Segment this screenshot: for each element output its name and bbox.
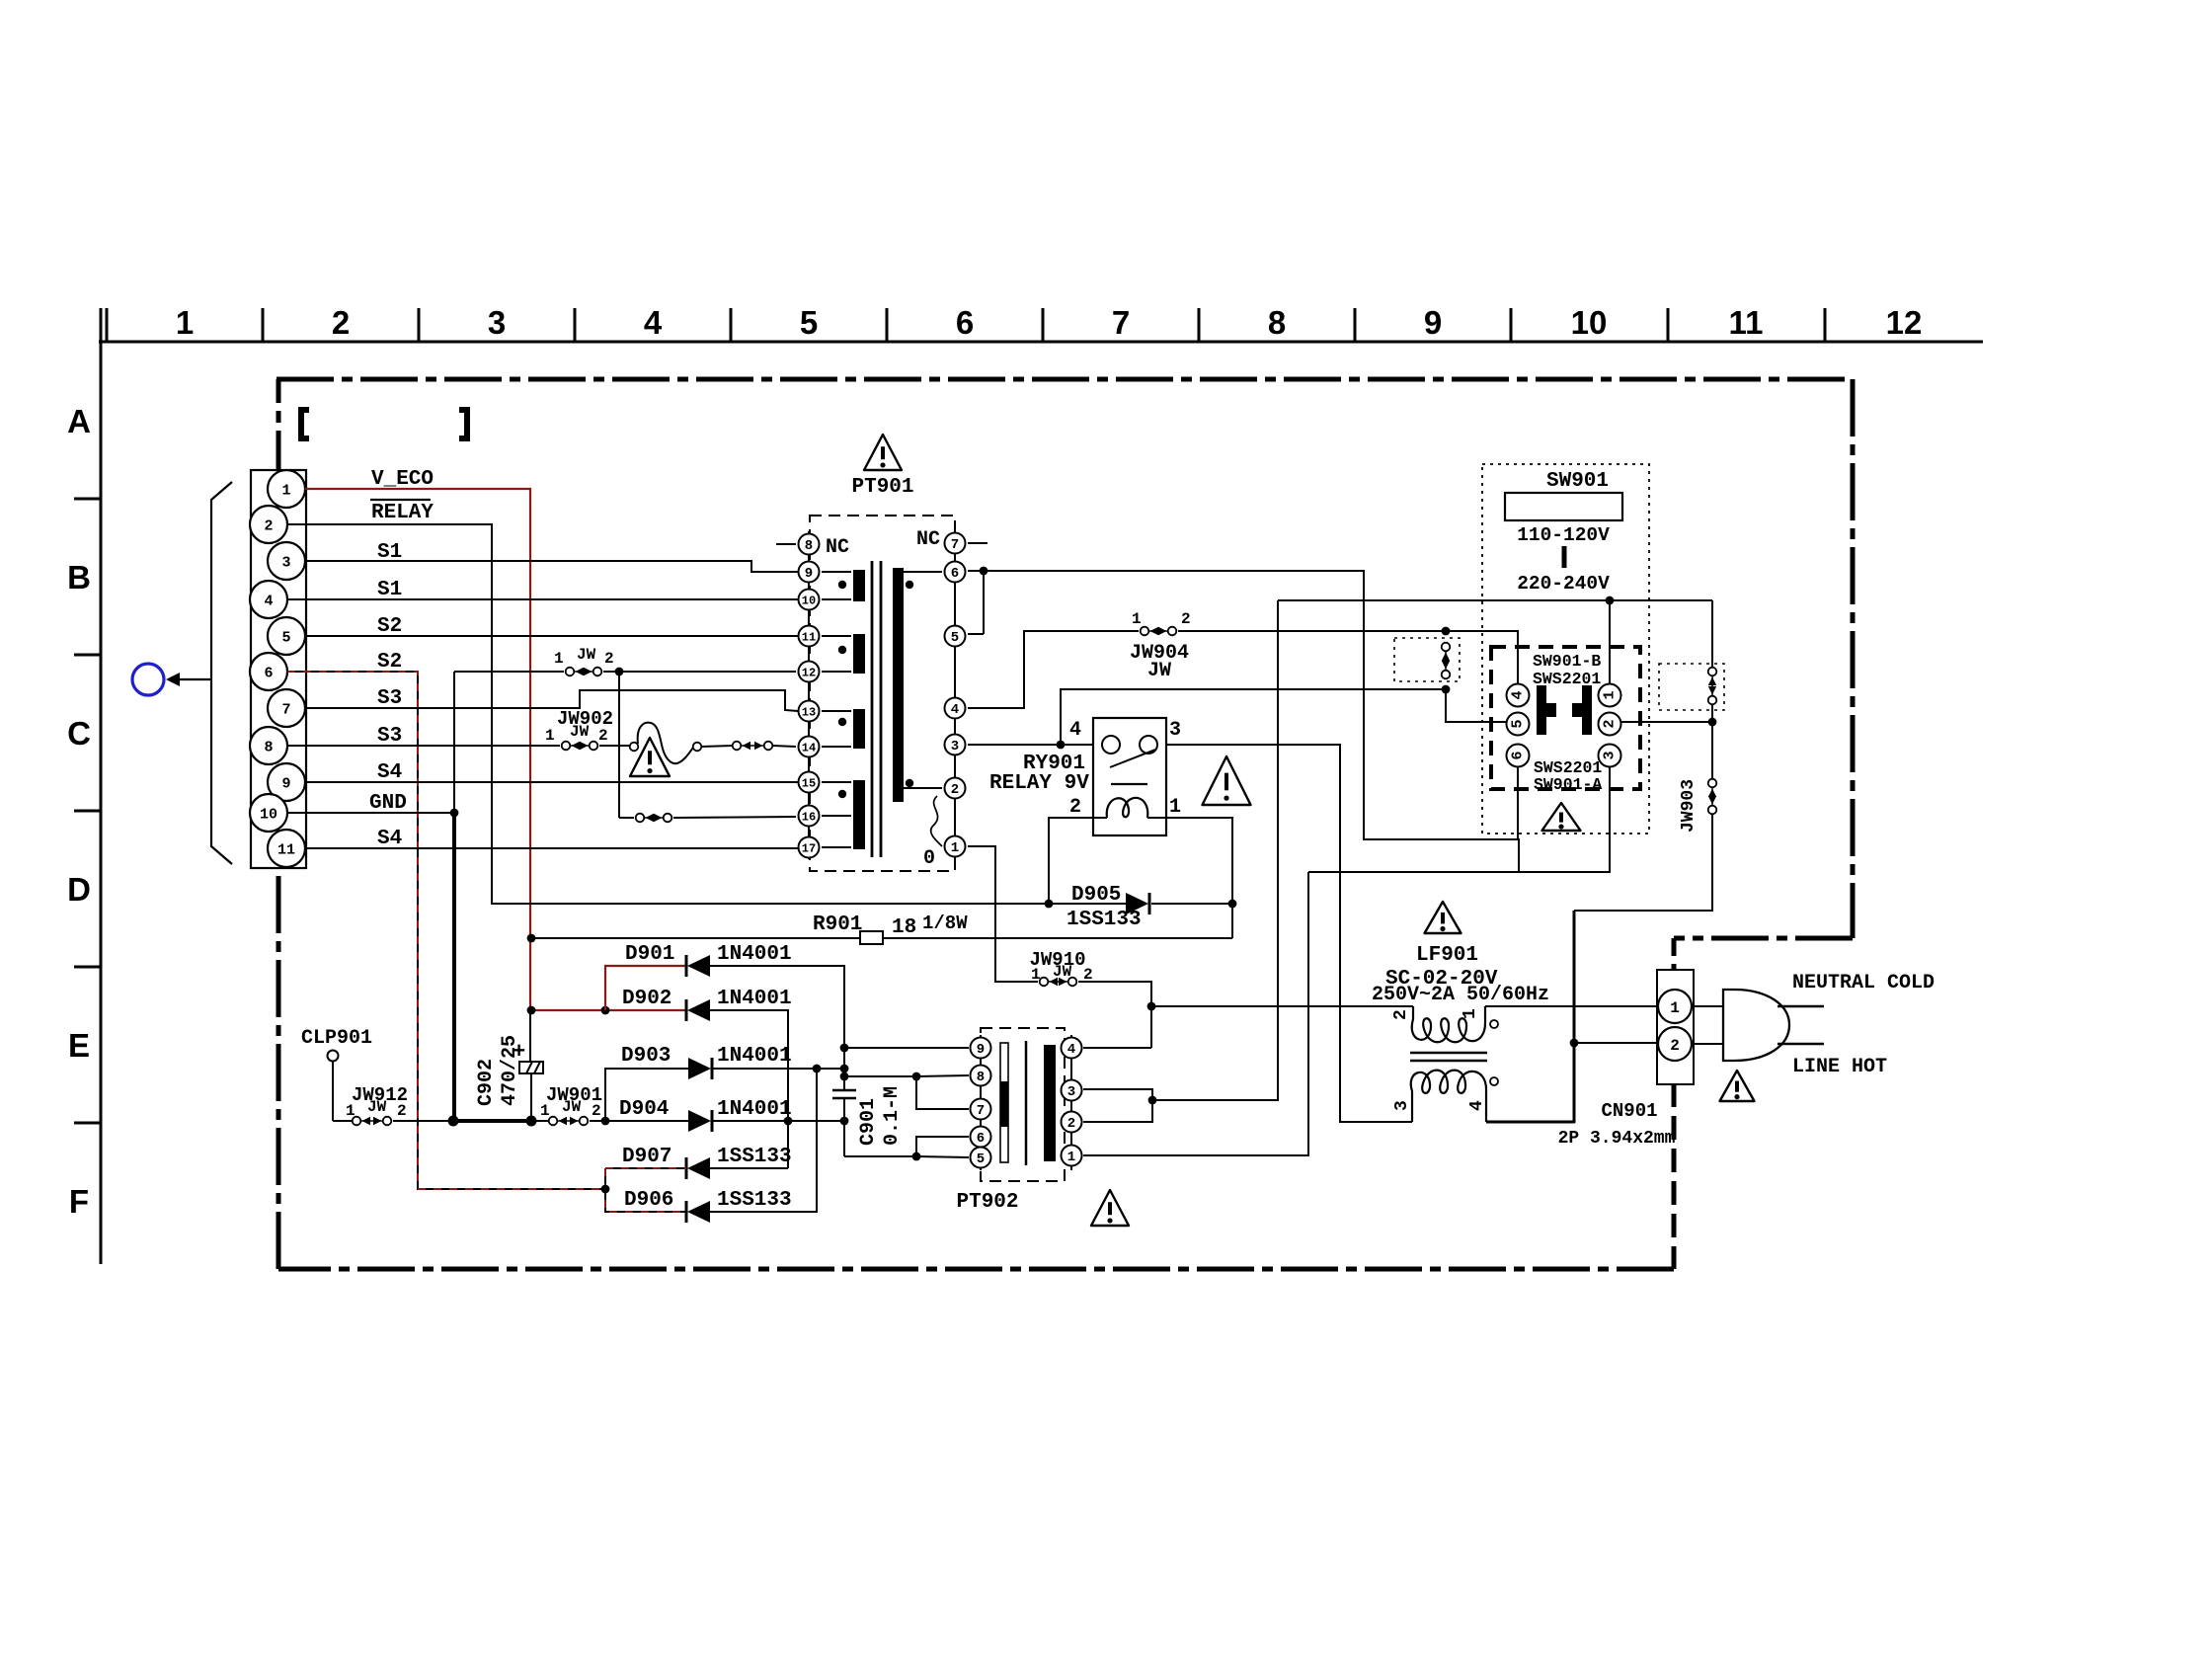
svg-text:D901: D901 [625,943,674,966]
svg-text:JW: JW [577,646,596,664]
arrow jumper (pin14) [741,745,764,747]
svg-text:1SS133: 1SS133 [717,1146,792,1168]
phase circle [1490,1020,1498,1028]
wire S2 pin5 to PT901 pin11 [305,635,798,637]
diode D901 [685,955,688,977]
svg-text:1: 1 [1461,1008,1480,1019]
wire LF901 pin4 [1486,1121,1575,1124]
svg-text:110-120V: 110-120V [1517,524,1610,546]
junction red dashed [601,1185,610,1194]
warning triangle plug [1720,1071,1755,1101]
svg-text:4: 4 [1069,719,1081,742]
svg-text:16: 16 [802,810,816,824]
relay lever [1110,750,1155,767]
SW901-B pin6 wire [1517,767,1519,839]
wire to PT901 pin16 [673,817,796,818]
svg-text:0: 0 [923,847,935,870]
svg-text:11: 11 [802,630,816,644]
PT901 pin 13 [799,701,820,722]
diode D906 [685,1201,688,1223]
svg-text:250V~2A 50/60Hz: 250V~2A 50/60Hz [1372,984,1549,1006]
PT902 primary bar (outline with solid center) [1000,1043,1008,1162]
svg-text:1N4001: 1N4001 [717,988,792,1010]
svg-text:9: 9 [977,1042,985,1058]
svg-text:NC: NC [826,536,849,559]
PT901 pin 1 [945,836,966,857]
svg-text:JW: JW [1147,660,1171,682]
connector pin 5 [268,617,305,655]
warning triangle PT901 [864,435,902,470]
junction GND thick [448,1116,459,1127]
svg-text:6: 6 [956,304,974,341]
plug leads [1692,1005,1723,1007]
svg-text:1: 1 [176,304,194,341]
winding stub [822,571,851,573]
svg-text:3: 3 [1067,1084,1075,1100]
svg-text:7: 7 [1112,304,1130,341]
PT902 pin 2 [1062,1112,1082,1133]
wire jumper to PT901 pin12 [603,671,796,673]
warning triangle PT902 [1091,1190,1129,1226]
switch contact glyphs [1537,685,1556,735]
svg-text:10: 10 [1571,304,1608,341]
arrow to circle [176,678,211,680]
svg-text:PT902: PT902 [956,1191,1018,1214]
selector bar [1562,546,1567,568]
winding stub [822,635,851,637]
wire down to pin16 jumper [618,672,620,818]
wire 220V net to LF901 pin2 [1151,1005,1413,1007]
svg-text:NC: NC [916,528,940,551]
connector pin 8 [250,727,287,764]
junction [840,1072,849,1081]
CN901 pin 2 [1658,1027,1692,1061]
wires PT902 pin3 pin2 [1083,1089,1152,1122]
svg-text:2: 2 [951,782,959,798]
hump wire over triangle [638,723,693,763]
wire pin5 join [983,571,985,634]
SW901 pin 3 [1599,745,1621,767]
svg-text:SW901-B: SW901-B [1533,652,1601,671]
svg-text:8: 8 [977,1070,985,1085]
relay coil pin1 wire [1147,818,1232,938]
svg-text:1: 1 [545,727,555,745]
wire JW904 to SW901-B pin4 [1178,631,1518,683]
svg-text:11: 11 [1729,304,1764,341]
svg-text:GND: GND [369,792,407,815]
PT902 left bus [980,1035,982,1170]
PT901 pin 16 [799,806,820,827]
wire D906 cathode [710,1069,817,1212]
svg-text:11: 11 [277,841,295,858]
diode D904 [711,1110,714,1132]
junction SW901 pin1 [1606,596,1615,605]
svg-text:CN901: CN901 [1601,1100,1657,1122]
LF901 bottom coil [1411,1071,1486,1122]
junction V_ECO to C902 [527,1006,536,1015]
svg-text:2: 2 [1069,796,1081,819]
wire to JW jumper (pin12) [454,671,564,673]
wire JW902 to hump [599,745,630,747]
svg-text:2: 2 [1067,1116,1075,1132]
svg-text:PT901: PT901 [851,476,913,499]
svg-text:D904: D904 [619,1098,669,1121]
PT901 pin 4 [945,698,966,719]
wire D903 cathode [712,1068,844,1070]
PT901 pin 6 [945,562,966,583]
winding stub [822,815,851,817]
svg-text:2: 2 [264,517,273,534]
wire JW903 down [1574,815,1712,911]
PT902 pin 7 [971,1099,991,1120]
wire jumper to GND [453,672,455,813]
svg-text:8: 8 [1268,304,1286,341]
junction [840,1065,849,1073]
svg-text:C902: C902 [475,1059,498,1106]
connector pin 7 [268,689,305,727]
secondary stubs [904,571,942,573]
SW901 slider rect [1505,493,1622,520]
off-board blue circle [132,664,164,695]
wire D907 cathode [710,1167,788,1169]
wire SW901 pin2 to JW903 [1621,721,1712,723]
svg-text:3: 3 [951,739,959,755]
wire R901 row [531,937,860,939]
PT902 pin 9 [971,1038,991,1059]
connector pin 2 [250,506,287,543]
svg-text:5: 5 [977,1152,985,1167]
wire S3 pin7 to PT901 pin13 [305,690,798,711]
junction CN901 pin2 [1570,1039,1579,1048]
svg-text:10: 10 [260,806,277,823]
svg-text:1: 1 [540,1102,550,1120]
junction [601,1006,610,1015]
wire S1 pin4 to PT901 pin10 [287,598,798,600]
junction [784,1117,793,1126]
svg-text:D903: D903 [621,1045,671,1068]
CN901 box [1657,970,1694,1084]
wire PT902 pin4 lead [1083,1047,1151,1049]
connector pin 10 [250,794,287,832]
CLP901 terminal [328,1051,339,1062]
junction [1057,741,1066,750]
PT902 pin 1 [1062,1146,1082,1166]
svg-text:JW903: JW903 [1679,779,1698,833]
PT901 pin 10 [799,590,820,610]
svg-text:4: 4 [1467,1100,1487,1111]
LF901 core [1410,1052,1487,1055]
PT902 pin 3 [1062,1080,1082,1101]
PT902 pin 4 [1062,1038,1082,1059]
wire PT901 pin1 to JW910 [968,846,1038,982]
svg-text:9: 9 [1424,304,1442,341]
D902 cathode wire down [710,1010,788,1168]
PT901 pin8 NC stub [776,543,796,545]
svg-text:5: 5 [800,304,818,341]
svg-text:LINE HOT: LINE HOT [1792,1056,1887,1078]
svg-text:1: 1 [1169,796,1181,819]
svg-text:14: 14 [802,741,816,755]
winding stub [822,710,851,712]
junction GND [450,809,459,818]
junction [1708,718,1717,727]
wire LF901 pin1 to CN901 pin1 [1485,1005,1657,1007]
junction PT902 pin9 [840,1044,849,1053]
wire 220-240V row [1278,599,1712,601]
svg-text:5: 5 [951,630,959,646]
jumper JW902 [570,745,590,747]
svg-text:10: 10 [802,594,816,607]
svg-text:2: 2 [332,304,350,341]
JW903 [1711,722,1713,778]
svg-text:7: 7 [281,701,290,718]
top ruler line [99,341,1983,344]
svg-text:E: E [68,1027,90,1064]
left ruler ticks [74,498,101,501]
svg-text:1: 1 [1067,1150,1075,1165]
PT901 pin 17 [799,837,820,858]
svg-text:2: 2 [604,650,614,668]
junction C902 [526,1116,537,1127]
PT902 dashed outline [981,1028,1065,1181]
svg-text:D: D [67,871,91,908]
junction C901 bottom [840,1117,849,1126]
phase dot [906,779,913,787]
wire pin4 to JW904 [968,631,1139,708]
svg-text:1SS133: 1SS133 [1066,909,1142,931]
svg-text:S3: S3 [377,687,402,710]
svg-text:12: 12 [1886,304,1923,341]
svg-text:3: 3 [1169,719,1181,742]
svg-text:1N4001: 1N4001 [717,943,792,966]
warning triangle LF901 [1425,902,1461,933]
PT902 core line [1025,1041,1028,1165]
svg-text:S3: S3 [377,725,402,748]
warning triangle relay [1203,756,1251,805]
winding stub [822,846,851,848]
svg-text:R901: R901 [813,913,862,936]
svg-text:S2: S2 [377,651,402,674]
jumper JW904 [1148,630,1168,632]
PT902 right bus [1070,1035,1072,1170]
svg-text:S1: S1 [377,579,402,601]
svg-text:D907: D907 [622,1146,671,1168]
winding phase dots [838,581,846,589]
svg-text:A: A [67,403,91,439]
top ruler ticks [106,308,109,342]
PT901 dashed outline [810,516,955,871]
svg-text:C901: C901 [857,1098,880,1146]
PT901 pin 9 [799,562,820,583]
connector pin 3 [268,542,305,580]
svg-text:4: 4 [951,702,959,718]
svg-text:9: 9 [805,566,813,582]
winding stub [822,598,851,600]
diode D902 [685,999,688,1021]
wire S4 pin9 to PT901 pin15 [305,781,798,783]
svg-text:2: 2 [1391,1009,1411,1020]
phase dot [906,581,913,589]
svg-text:1N4001: 1N4001 [717,1098,792,1121]
connector body box [251,470,306,868]
svg-text:SW901: SW901 [1546,470,1609,493]
svg-text:3: 3 [281,554,290,571]
connector pin 1 [268,470,305,508]
junction pin6/pin5 [980,567,988,576]
svg-text:8: 8 [805,538,813,554]
PT901 left pin bus [808,531,810,859]
junction [1442,627,1451,636]
wire S3 pin8 start [287,745,560,747]
warning triangle SW901 [1542,803,1581,831]
relay pin3 wire to LF901 pin3 [1166,745,1412,1122]
svg-text:6: 6 [1510,751,1527,759]
wire to CN901 pin2 [1574,1042,1657,1044]
PT901 pin 15 [799,772,820,793]
svg-text:4: 4 [1510,690,1527,699]
wire up to 110V select [1061,689,1446,745]
PT901 core lines [871,561,874,857]
svg-text:2: 2 [1670,1037,1680,1055]
red dashed anode links D907/D906 [605,1168,686,1212]
svg-text:2: 2 [1602,719,1619,728]
wire S2 pin6 red dashed [287,672,605,1189]
plug prongs [1777,1005,1824,1008]
wire to SW901 pin1 [1609,600,1611,683]
wire GND pin10 [287,812,454,814]
junction PT902 pin2/3 [1148,1096,1157,1105]
LF901 top coil [1412,1006,1485,1042]
svg-text:CLP901: CLP901 [301,1027,372,1050]
SW901 pin 6 [1507,745,1530,767]
svg-text:3: 3 [1602,751,1619,759]
svg-text:2P 3.94x2mm: 2P 3.94x2mm [1558,1129,1676,1149]
svg-text:5: 5 [281,629,290,646]
PT902 secondary bar [1044,1045,1056,1161]
PT901 pin 5 [945,626,966,647]
off-board bracket [211,482,232,864]
dotted box (jumper option) [1394,638,1460,681]
relay RY901 box [1093,718,1166,835]
svg-text:JW: JW [562,1098,582,1116]
svg-text:S4: S4 [377,828,402,850]
PT901 pin7 NC stub [968,542,987,544]
svg-text:S4: S4 [377,761,402,784]
svg-text:12: 12 [802,666,816,679]
jumper JW901 [557,1120,580,1122]
arrow jumper (pin16) [644,817,664,819]
right dotted box jumper [1659,664,1724,710]
CN901 pin 1 [1658,990,1692,1023]
wire RELAY pin2 [287,524,1049,904]
svg-text:220-240V: 220-240V [1517,573,1610,595]
PT901 right pin bus [954,531,956,859]
PT901 pin 2 [945,778,966,799]
svg-text:C: C [67,715,91,752]
svg-text:LF901: LF901 [1416,944,1478,967]
jumper (110V option) [1445,651,1447,671]
D901 cathode wire to PT902 pin9 [710,966,844,1090]
svg-text:D906: D906 [624,1189,673,1212]
PT901 pin 8 [799,534,820,555]
SW901 pin 1 [1599,684,1621,707]
AC plug symbol [1723,990,1789,1061]
diode D903 [711,1058,714,1079]
winding stub [822,781,851,783]
PT901 pin 11 [799,626,820,647]
wire PT901 pin6 net [968,571,1519,872]
dash-dot board outline [276,377,1853,382]
svg-text:1: 1 [1670,999,1680,1017]
PT902 pin 6 [971,1127,991,1148]
jumper JW903 [1711,787,1713,806]
svg-text:1/8W: 1/8W [922,913,968,934]
220V drop to PT902 pins 2/3 [1152,600,1278,1100]
junction D905 anode [1045,900,1054,909]
wire V_ECO (red) pin1 [305,489,530,1010]
svg-text:S2: S2 [377,615,402,638]
svg-text:B: B [67,559,91,596]
svg-text:5: 5 [1510,719,1527,728]
warning triangle (S3 path) [630,738,670,776]
wire 220V to jumper [1711,600,1713,667]
junction D903 anode [601,1117,610,1126]
hump terminal circle [693,743,702,752]
svg-text:1N4001: 1N4001 [717,1045,792,1068]
PT902 pin 5 [971,1148,991,1168]
wires to PT902 left pins [844,1047,969,1049]
junction [813,1065,822,1073]
jumper JW (pin12) [574,671,593,673]
svg-text:2: 2 [598,727,608,745]
svg-text:7: 7 [977,1103,985,1119]
board name brackets [301,410,309,438]
C901 capacitor [832,1089,856,1092]
squiggle wire to pin1 [931,796,942,846]
svg-text:1: 1 [1132,610,1142,628]
svg-text:D905: D905 [1071,884,1121,907]
wire D904 cathode [712,1120,844,1122]
PT902 pin1 wire [1083,872,1308,1155]
connector pin 9 [268,763,305,801]
PT901 secondary bar [893,568,904,802]
phase circle [1490,1077,1498,1085]
svg-text:17: 17 [802,841,816,855]
svg-text:2: 2 [592,1102,601,1120]
svg-text:6: 6 [264,665,273,681]
wire S1 pin3 to PT901 pin9 [305,561,798,572]
overline of RELAY [370,499,431,501]
wire PT901 pin3 to relay [968,744,1093,746]
PT901 pin 12 [799,662,820,682]
svg-text:JW: JW [367,1098,387,1116]
junction [1442,685,1451,694]
svg-text:9: 9 [281,775,290,792]
PT901 pin 14 [799,737,820,757]
relay contact [1102,736,1120,754]
svg-text:NEUTRAL COLD: NEUTRAL COLD [1792,972,1935,994]
jumper JW912 [360,1120,383,1122]
svg-text:15: 15 [802,776,816,790]
wire D903 anode [605,1069,688,1121]
svg-text:F: F [69,1183,89,1220]
GND thick drop [452,813,456,1121]
hump terminal circle [630,743,639,752]
thick mains drop to CN901 pin2 [1573,911,1576,1123]
svg-text:8: 8 [264,739,273,755]
svg-text:7: 7 [951,537,959,553]
svg-text:4: 4 [264,593,273,609]
